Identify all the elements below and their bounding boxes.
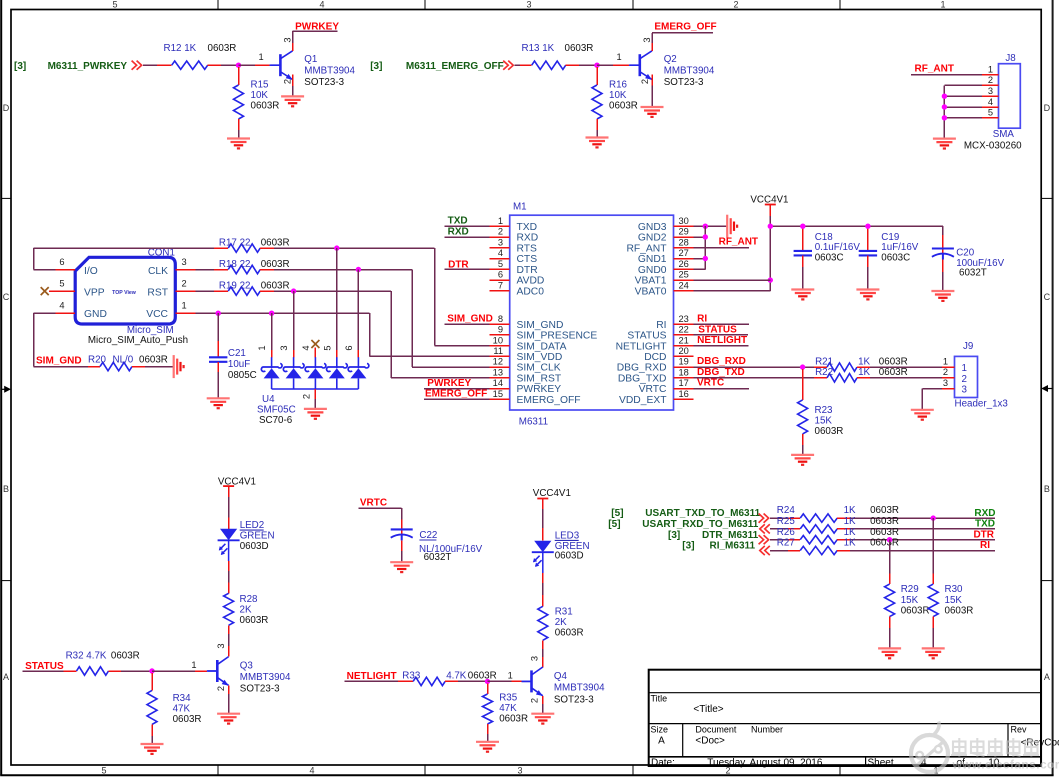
chevron DTR_M6311 xyxy=(759,535,769,544)
svg-text:Tuesday, August 09, 2016: Tuesday, August 09, 2016 xyxy=(707,757,823,768)
svg-text:21: 21 xyxy=(679,335,689,345)
svg-text:SIM_PRESENCE: SIM_PRESENCE xyxy=(517,331,598,342)
wire R31 to Q4 collector xyxy=(542,640,544,667)
wire node A to Q1 base xyxy=(239,52,280,65)
svg-text:13: 13 xyxy=(493,367,503,377)
svg-text:R25: R25 xyxy=(777,516,796,527)
connector J8 xyxy=(964,53,1022,152)
junction J8 pin5 xyxy=(942,115,947,120)
svg-text:STATUS: STATUS xyxy=(627,331,666,342)
ground R16 xyxy=(586,138,609,148)
svg-text:DBG_TXD: DBG_TXD xyxy=(618,373,667,384)
svg-text:VDD_EXT: VDD_EXT xyxy=(619,395,667,406)
svg-text:29: 29 xyxy=(679,227,689,237)
svg-text:SC70-6: SC70-6 xyxy=(259,415,293,426)
svg-text:1: 1 xyxy=(988,64,993,74)
svg-text:2: 2 xyxy=(943,367,948,377)
wire R22 to J9 pin2 xyxy=(857,377,942,379)
resistor R20 xyxy=(88,354,168,371)
resistor R17 xyxy=(219,237,290,252)
ground J9 xyxy=(911,410,934,420)
svg-text:[3]: [3] xyxy=(682,541,694,552)
svg-text:M6311: M6311 xyxy=(519,416,548,427)
capacitor C18 xyxy=(794,232,861,264)
wire rail to C19 xyxy=(867,226,869,251)
svg-text:VPP: VPP xyxy=(84,287,105,298)
svg-text:R20: R20 xyxy=(88,354,107,365)
svg-text:GREEN: GREEN xyxy=(240,531,275,542)
svg-text:19: 19 xyxy=(679,357,689,367)
svg-text:[3]: [3] xyxy=(370,61,382,72)
svg-text:1K: 1K xyxy=(844,505,856,516)
wire node A to R15 xyxy=(238,67,240,85)
svg-text:RI_M6311: RI_M6311 xyxy=(710,541,756,552)
svg-text:R21: R21 xyxy=(815,356,833,367)
net label VRTC at M1 xyxy=(697,377,724,388)
svg-text:4: 4 xyxy=(309,766,314,776)
svg-text:D: D xyxy=(1044,103,1051,113)
junction J8 pin4 xyxy=(942,104,947,109)
svg-text:9: 9 xyxy=(498,325,503,335)
wire Q2 emitter to ground xyxy=(651,75,653,108)
ground Q3 xyxy=(217,714,240,724)
svg-text:LED2: LED2 xyxy=(240,520,265,531)
node M6311_PWRKEY xyxy=(14,61,127,72)
svg-text:0603R: 0603R xyxy=(139,354,168,365)
ground Q2 emitter xyxy=(641,107,664,117)
wire M6311_EMERG_OFF to R13 xyxy=(515,64,532,66)
svg-text:AVDD: AVDD xyxy=(517,276,545,287)
wire VRTC to C22 xyxy=(359,508,402,537)
wire DBG_TXD row xyxy=(694,377,828,379)
svg-text:25: 25 xyxy=(679,270,689,280)
wire R23 to ground xyxy=(802,434,804,455)
wire RXD to M1 pin2 xyxy=(445,236,490,238)
svg-text:C20: C20 xyxy=(956,248,975,259)
wire Q1 collector to PWRKEY xyxy=(293,31,338,51)
svg-text:14: 14 xyxy=(493,378,503,388)
wire R15 to ground xyxy=(238,119,240,139)
power VCC4V1 top xyxy=(750,195,788,227)
svg-text:R16: R16 xyxy=(609,80,628,91)
resistor R29 xyxy=(885,584,930,617)
svg-text:[3]: [3] xyxy=(14,61,26,72)
net label NETLIGHT xyxy=(347,671,397,682)
svg-text:2: 2 xyxy=(283,79,293,84)
wire diode3 to R19 row xyxy=(293,291,295,357)
svg-text:R32 4.7K: R32 4.7K xyxy=(66,650,107,661)
svg-text:R31: R31 xyxy=(555,607,573,618)
wire R32 to node C xyxy=(109,670,153,672)
svg-text:3: 3 xyxy=(962,385,968,396)
ground C19 xyxy=(856,290,879,300)
svg-text:3: 3 xyxy=(498,237,503,247)
svg-text:RXD: RXD xyxy=(448,226,469,237)
svg-text:NETLIGHT: NETLIGHT xyxy=(347,671,397,682)
svg-text:DTR_M6311: DTR_M6311 xyxy=(702,530,759,541)
svg-text:<Doc>: <Doc> xyxy=(695,736,725,747)
wire R26 to label xyxy=(837,539,995,541)
svg-text:Number: Number xyxy=(751,725,783,735)
svg-text:0603R: 0603R xyxy=(240,615,269,626)
svg-text:0.1uF/16V: 0.1uF/16V xyxy=(815,242,861,253)
junction node A xyxy=(236,62,241,67)
svg-text:VCC4V1: VCC4V1 xyxy=(533,488,571,499)
ground R29 xyxy=(878,648,901,658)
svg-text:Title: Title xyxy=(651,694,668,704)
svg-text:SIM_CLK: SIM_CLK xyxy=(517,363,561,374)
svg-text:Q2: Q2 xyxy=(664,54,677,65)
wire GND bus vertical xyxy=(694,226,706,269)
svg-text:0603R: 0603R xyxy=(251,101,280,112)
wire RI from M1 pin23 xyxy=(694,323,750,325)
wire R28 to Q3 collector xyxy=(228,625,230,656)
svg-text:J8: J8 xyxy=(1005,53,1016,64)
resistor R21 xyxy=(815,356,908,371)
svg-text:6: 6 xyxy=(344,345,354,350)
svg-text:2: 2 xyxy=(733,0,738,10)
svg-text:B: B xyxy=(1044,484,1050,494)
svg-text:D: D xyxy=(3,103,10,113)
wire diode6 to R18 row xyxy=(357,270,359,358)
resistor R26 xyxy=(777,527,899,544)
wire node D to R35 xyxy=(487,683,489,694)
svg-text:16: 16 xyxy=(679,389,689,399)
svg-text:2K: 2K xyxy=(240,605,252,616)
svg-text:PWRKEY: PWRKEY xyxy=(427,378,471,389)
wire LED3 to R31 xyxy=(542,552,544,606)
junction RXD row R30 xyxy=(931,515,936,520)
junction GND1 xyxy=(703,256,708,261)
wire M6311_PWRKEY to R12 xyxy=(143,64,172,66)
svg-text:0603R: 0603R xyxy=(555,628,584,639)
svg-text:USART_RXD_TO_M6311: USART_RXD_TO_M6311 xyxy=(642,519,758,530)
svg-text:2K: 2K xyxy=(555,617,567,628)
junction C18 xyxy=(800,224,805,229)
wire node C to R34 xyxy=(151,673,153,690)
ground R30 xyxy=(922,648,945,658)
connector J9 xyxy=(942,341,1008,410)
svg-text:SMA: SMA xyxy=(993,129,1015,140)
junction GND3 bus xyxy=(703,224,708,229)
svg-text:RI: RI xyxy=(980,540,990,551)
wire Q1 emitter to ground xyxy=(292,75,294,97)
capacitor C19 xyxy=(859,232,919,264)
svg-text:EMERG_OFF: EMERG_OFF xyxy=(654,21,716,32)
svg-text:Q3: Q3 xyxy=(240,660,254,671)
svg-text:R19 22: R19 22 xyxy=(219,280,251,291)
svg-text:3: 3 xyxy=(642,37,652,42)
svg-text:26: 26 xyxy=(679,259,689,269)
svg-text:DBG_RXD: DBG_RXD xyxy=(617,363,667,374)
wire CON1 VCC to M1 SIM_VDD xyxy=(195,313,489,356)
ground Q4 xyxy=(531,714,554,724)
svg-text:15: 15 xyxy=(493,389,503,399)
transistor Q2 xyxy=(630,37,715,88)
svg-text:23: 23 xyxy=(679,314,689,324)
junction R17 row diode5 xyxy=(334,245,339,250)
resistor R28 xyxy=(224,593,269,626)
svg-text:18: 18 xyxy=(679,367,689,377)
resistor R18 xyxy=(219,259,290,274)
svg-text:Micro_SIM_Auto_Push: Micro_SIM_Auto_Push xyxy=(88,335,188,346)
resistor R19 xyxy=(219,280,290,295)
wire R29 riser xyxy=(889,540,891,584)
svg-text:0603R: 0603R xyxy=(111,650,140,661)
wire to R25 xyxy=(770,528,800,530)
transistor Q4 xyxy=(522,656,606,705)
net label DBG_TXD xyxy=(697,367,745,378)
svg-text:3: 3 xyxy=(988,86,993,96)
net label DTR at M1 xyxy=(448,260,469,271)
resistor R23 xyxy=(798,400,844,437)
wire R21 to J9 pin1 xyxy=(857,366,942,368)
svg-text:Document: Document xyxy=(695,725,737,735)
wire C22 to ground xyxy=(401,540,403,562)
ground J8 xyxy=(933,139,956,149)
net label VRTC xyxy=(360,497,387,508)
svg-text:SOT23-3: SOT23-3 xyxy=(664,77,704,88)
net label SIM_GND at M1 xyxy=(447,314,493,325)
svg-text:MMBT3904: MMBT3904 xyxy=(240,672,291,683)
junction VBAT1 xyxy=(768,277,773,282)
svg-text:20: 20 xyxy=(679,346,689,356)
wire LED2 to R28 xyxy=(228,540,230,593)
wire CON1 CLK to R18 xyxy=(195,269,228,271)
wire R30 riser xyxy=(932,518,934,584)
svg-text:2: 2 xyxy=(216,686,226,691)
svg-text:R33: R33 xyxy=(402,671,421,682)
junction GND2 xyxy=(703,234,708,239)
wire PWRKEY to M1 pin14 xyxy=(424,388,490,390)
svg-text:TXD: TXD xyxy=(975,519,995,530)
resistor R13 xyxy=(522,43,594,70)
resistor R24 xyxy=(777,505,899,522)
svg-text:MCX-030260: MCX-030260 xyxy=(964,141,1022,152)
svg-text:PWRKEY: PWRKEY xyxy=(295,21,339,32)
svg-text:1: 1 xyxy=(508,670,513,680)
LED LED3 xyxy=(532,530,590,567)
svg-text:RXD: RXD xyxy=(517,233,539,244)
svg-text:R28: R28 xyxy=(240,594,259,605)
svg-text:0603D: 0603D xyxy=(555,550,584,561)
svg-text:5: 5 xyxy=(988,108,993,118)
wire R30 to ground xyxy=(932,617,934,649)
wire R19 to M1 SIM_RST xyxy=(260,291,490,378)
svg-text:DTR: DTR xyxy=(517,265,538,276)
svg-text:M1: M1 xyxy=(513,201,527,212)
ground symbol rotated at GND3 xyxy=(727,215,737,238)
IC M1 M6311 module xyxy=(490,201,694,427)
svg-text:0603R: 0603R xyxy=(173,714,202,725)
svg-text:0603R: 0603R xyxy=(870,516,899,527)
svg-text:R17 22: R17 22 xyxy=(219,237,251,248)
svg-text:R18 22: R18 22 xyxy=(219,259,251,270)
svg-text:R26: R26 xyxy=(777,527,796,538)
no-connect X diode4 xyxy=(311,340,319,357)
svg-text:6: 6 xyxy=(498,270,503,280)
ground R15 xyxy=(227,139,250,149)
svg-text:RF_ANT: RF_ANT xyxy=(719,237,758,248)
svg-text:RI: RI xyxy=(697,314,707,325)
svg-text:0603R: 0603R xyxy=(499,714,528,725)
svg-text:J9: J9 xyxy=(963,341,973,352)
wire VCC4V1 rail xyxy=(770,226,943,291)
wire EMERG_OFF to M1 pin15 xyxy=(424,398,490,400)
svg-text:3: 3 xyxy=(526,0,531,10)
svg-text:7: 7 xyxy=(498,281,503,291)
wire NETLIGHT to R33 xyxy=(345,680,414,682)
svg-text:5: 5 xyxy=(322,345,332,350)
TVS array U4 xyxy=(257,345,369,426)
svg-text:5: 5 xyxy=(112,0,117,10)
svg-text:R13 1K: R13 1K xyxy=(522,43,555,54)
capacitor C20 polarized xyxy=(932,248,1005,279)
svg-text:Q4: Q4 xyxy=(554,671,568,682)
svg-text:17: 17 xyxy=(679,378,689,388)
junction VCC row diode1 xyxy=(269,311,274,316)
svg-text:0603C: 0603C xyxy=(815,253,844,264)
capacitor C22 polarized xyxy=(391,529,483,563)
wire TXD to M1 pin1 xyxy=(445,225,490,227)
resistor R31 xyxy=(538,606,584,640)
svg-text:6032T: 6032T xyxy=(424,552,452,563)
junction J8 pin3 xyxy=(942,94,947,99)
svg-text:0603R: 0603R xyxy=(609,101,638,112)
wire Q4 emitter to ground xyxy=(542,696,544,714)
wire rail to C18 xyxy=(802,226,804,251)
svg-text:4: 4 xyxy=(319,0,324,10)
wire R29 to ground xyxy=(889,617,891,649)
svg-text:NL/0: NL/0 xyxy=(113,354,134,365)
svg-text:PWRKEY: PWRKEY xyxy=(517,384,562,395)
svg-text:3: 3 xyxy=(216,643,226,648)
svg-text:1: 1 xyxy=(191,660,196,670)
svg-text:1: 1 xyxy=(617,52,622,62)
svg-text:M6311_PWRKEY: M6311_PWRKEY xyxy=(48,61,128,72)
resistor R32 xyxy=(66,650,140,675)
svg-text:R35: R35 xyxy=(499,693,518,704)
svg-text:CTS: CTS xyxy=(517,254,538,265)
net label RF_ANT at M1 xyxy=(719,237,758,248)
wire R35 to ground xyxy=(487,724,489,742)
svg-text:1K: 1K xyxy=(858,356,870,367)
wire DTR to M1 pin5 xyxy=(445,268,490,270)
svg-text:8: 8 xyxy=(498,314,503,324)
svg-text:0603C: 0603C xyxy=(881,253,910,264)
wire diode5 to R17 row xyxy=(336,248,338,357)
net label RXD xyxy=(448,226,469,237)
no-connect X at CON1 VPP xyxy=(41,287,49,295)
wire node B to R16 xyxy=(596,67,598,85)
wire R33 to node D xyxy=(445,680,487,682)
ground Q1 emitter xyxy=(281,96,304,106)
svg-text:B: B xyxy=(3,484,9,494)
svg-text:I/O: I/O xyxy=(84,266,98,277)
svg-text:R27: R27 xyxy=(777,538,795,549)
resistor R12 xyxy=(164,43,237,70)
svg-text:47K: 47K xyxy=(173,704,191,715)
svg-text:RST: RST xyxy=(147,287,168,298)
title block xyxy=(649,670,1059,769)
power VCC4V1 at LED3 xyxy=(533,488,571,541)
svg-text:www.elecfans.com: www.elecfans.com xyxy=(952,757,1059,771)
chevron USART_TXD xyxy=(759,514,769,523)
svg-text:1K: 1K xyxy=(844,538,856,549)
wire R25 to label xyxy=(837,528,995,530)
svg-text:SMF05C: SMF05C xyxy=(257,405,296,416)
wire R12 to node A xyxy=(208,64,239,66)
svg-text:SIM_VDD: SIM_VDD xyxy=(517,352,563,363)
net label RXD xyxy=(974,508,995,519)
svg-text:2: 2 xyxy=(640,79,650,84)
svg-text:R30: R30 xyxy=(945,584,964,595)
resistor R15 xyxy=(234,80,280,120)
svg-text:SIM_GND: SIM_GND xyxy=(36,355,82,366)
power VCC4V1 at LED2 xyxy=(218,476,256,529)
svg-text:RF_ANT: RF_ANT xyxy=(626,243,667,254)
svg-text:5: 5 xyxy=(498,259,503,269)
svg-text:2: 2 xyxy=(182,279,187,289)
junction R18 row diode6 xyxy=(356,267,361,272)
svg-text:15K: 15K xyxy=(945,595,963,606)
wire to R27 xyxy=(770,550,800,552)
svg-text:0603R: 0603R xyxy=(870,538,899,549)
wire NETLIGHT from M1 pin21 xyxy=(694,345,749,347)
svg-text:10: 10 xyxy=(493,335,503,345)
svg-text:DCD: DCD xyxy=(644,352,666,363)
svg-text:GND: GND xyxy=(84,309,107,320)
net labels RI STATUS NETLIGHT xyxy=(697,314,747,346)
svg-text:2: 2 xyxy=(302,394,312,399)
svg-text:DBG_TXD: DBG_TXD xyxy=(697,367,745,378)
net label TXD right xyxy=(975,519,995,530)
svg-text:3: 3 xyxy=(530,656,540,661)
svg-text:MMBT3904: MMBT3904 xyxy=(664,66,715,77)
svg-text:2: 2 xyxy=(498,227,503,237)
svg-text:11: 11 xyxy=(493,346,503,356)
svg-text:TXD: TXD xyxy=(448,216,468,227)
net label TXD xyxy=(448,216,468,227)
svg-text:0603R: 0603R xyxy=(879,367,908,378)
svg-text:NETLIGHT: NETLIGHT xyxy=(616,341,668,352)
svg-text:24: 24 xyxy=(679,281,689,291)
svg-text:2: 2 xyxy=(962,374,967,385)
svg-text:2: 2 xyxy=(988,75,993,85)
svg-text:C22: C22 xyxy=(419,530,437,541)
wire RF_ANT from M1 pin28 xyxy=(694,247,750,249)
svg-text:Size: Size xyxy=(651,725,669,735)
node USART_RXD_TO_M6311 xyxy=(608,519,758,530)
wire J8 pins 2-5 bus xyxy=(944,85,982,138)
resistor R33 xyxy=(402,671,496,686)
svg-text:6032T: 6032T xyxy=(959,268,987,279)
node USART_TXD_TO_M6311 xyxy=(611,508,760,519)
junction VCC rail xyxy=(768,224,773,229)
svg-text:DTR: DTR xyxy=(973,529,994,540)
wire RF_ANT to J8 pin 1 xyxy=(911,74,982,76)
wire Q2 collector to EMERG_OFF xyxy=(652,33,713,51)
svg-text:TOP View: TOP View xyxy=(112,290,137,296)
svg-text:4: 4 xyxy=(988,97,993,107)
svg-text:RI: RI xyxy=(656,320,666,331)
wire C18 to ground xyxy=(802,255,804,289)
svg-text:4: 4 xyxy=(498,248,503,258)
svg-text:SOT23-3: SOT23-3 xyxy=(554,694,594,705)
svg-text:28: 28 xyxy=(679,237,689,247)
net label SIM_GND at CON1 xyxy=(36,355,82,366)
ground R34 xyxy=(141,744,164,754)
